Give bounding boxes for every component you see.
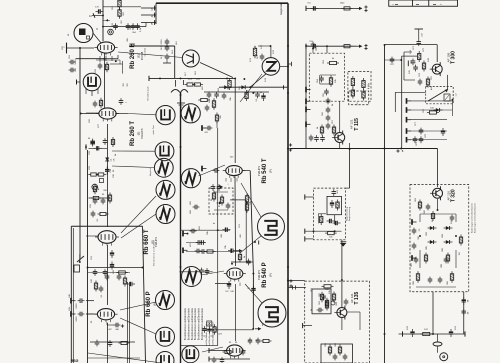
capacitor C5 mid top — [161, 39, 169, 46]
label Rb660T — [144, 229, 158, 254]
leader V1 — [118, 52, 183, 58]
wire tube column c — [107, 245, 109, 305]
wire t320 links — [416, 199, 456, 287]
wire pill540T — [213, 157, 251, 173]
tube Rb540T envelope — [223, 166, 246, 178]
wire x437 into T320 — [437, 149, 439, 188]
svg-text:(E): (E) — [137, 54, 141, 58]
wire bottom mid x253 — [250, 171, 254, 329]
choke br — [433, 334, 442, 353]
label Rb660P — [146, 291, 157, 316]
resistor R12 rd — [212, 191, 230, 210]
resistor R13 rd2 — [245, 193, 252, 213]
svg-text:AF 121: AF 121 — [350, 119, 354, 129]
leader output tube — [202, 347, 223, 352]
cluster E1 below — [95, 62, 109, 73]
tube socket V4b — [156, 180, 175, 199]
box small rsg — [74, 265, 80, 272]
wire lowleft box — [71, 226, 145, 363]
labels b5 — [211, 184, 241, 228]
wire right extra — [385, 59, 402, 61]
wire top right feed y8 — [306, 3, 356, 12]
svg-text:T 300: T 300 — [451, 51, 457, 64]
junction marks bus — [180, 44, 403, 335]
small box note — [207, 321, 212, 326]
wire uhf to bus — [280, 65, 289, 67]
tube Rb260T envelope — [96, 108, 119, 122]
capacitor C31 t300 — [408, 61, 425, 74]
wire E1 pins — [100, 56, 112, 62]
wire bottom mid — [209, 357, 250, 363]
label Rb540P — [257, 262, 273, 287]
label Rb540T — [257, 158, 273, 183]
svg-text:Rb 660 P: Rb 660 P — [146, 291, 152, 316]
wire x463 down — [432, 292, 464, 335]
terminal rows right — [407, 98, 412, 142]
cap C37 right — [390, 57, 395, 66]
terminal t135 — [303, 323, 312, 328]
wire t115 links — [306, 46, 340, 149]
cluster mid y118 — [202, 113, 222, 135]
cluster mid y250 — [238, 252, 246, 263]
tube input pins — [86, 82, 129, 96]
capacitor C27 t115 — [319, 75, 336, 95]
label T135 — [350, 291, 360, 304]
resistor R7 uhf — [253, 46, 256, 59]
diode D2 — [239, 85, 248, 89]
box T300 pot — [426, 87, 458, 104]
wire main top bus — [156, 3, 288, 24]
box top right table — [389, 0, 458, 6]
svg-text:Rb 660 T: Rb 660 T — [144, 229, 150, 254]
terminal 10 mark — [89, 13, 103, 18]
labels left low — [69, 269, 124, 331]
tube socket UKW — [262, 58, 280, 76]
box AGC stage — [314, 188, 346, 240]
capacitor C10 row — [245, 90, 266, 101]
wire right link x368 — [364, 5, 367, 50]
junction t320 — [419, 209, 457, 237]
box ratio detector dashed — [209, 188, 233, 214]
tube socket V2b — [181, 104, 200, 123]
svg-text:AF 121: AF 121 — [350, 293, 354, 303]
junction a — [159, 77, 228, 79]
resistor R18 t115 — [320, 125, 335, 136]
wire bus to T135b — [289, 286, 306, 290]
svg-text:siehe Text: siehe Text — [152, 125, 155, 135]
box 4kHz filter — [348, 71, 371, 101]
arrow feed 2 — [356, 45, 362, 48]
wire x235 above Rb540T — [234, 78, 236, 163]
resistor R4 am row — [185, 79, 204, 86]
leader UKW — [240, 74, 262, 102]
svg-text:Oszillator: Oszillator — [144, 47, 147, 56]
label T320 — [447, 189, 457, 202]
label Rb260T — [130, 121, 144, 146]
labels T300 — [411, 45, 433, 145]
box AGC inner — [327, 196, 342, 214]
speaker symbol — [74, 24, 101, 44]
svg-text:Rb 540 T: Rb 540 T — [262, 158, 268, 183]
wire IF box top edge — [129, 46, 175, 78]
transistor T320 — [430, 186, 443, 200]
labels topleft2 — [107, 18, 136, 47]
tube Rb660P envelope — [94, 309, 117, 323]
capacitor AGC top — [332, 189, 340, 196]
cluster under E3 — [87, 250, 144, 276]
wire t135 inner — [341, 280, 343, 307]
junction t115 — [349, 143, 351, 150]
capacitor C26 t115 — [305, 42, 315, 54]
capacitor C19 y267 — [181, 228, 243, 275]
capacitor C35 br — [407, 325, 415, 337]
svg-text:T 320: T 320 — [451, 189, 457, 202]
box small right — [349, 91, 369, 105]
wire tube column a — [76, 53, 128, 108]
tube socket V1 triode — [182, 50, 199, 67]
cluster mid y237 — [186, 233, 242, 251]
capacitor column t115 — [326, 98, 331, 130]
capacitor C2 top — [103, 23, 146, 31]
capacitor C8 am row — [207, 92, 219, 99]
box T320 stage — [410, 185, 469, 292]
capacitor AGC pair — [327, 219, 341, 225]
resistor R17 t115 — [329, 75, 337, 87]
ground AGC — [340, 240, 346, 266]
wire T115 left rail — [305, 46, 307, 149]
resistor R22 rows — [427, 108, 439, 115]
junction left — [79, 47, 108, 161]
capacitor C25 bm — [202, 324, 253, 335]
terminal br — [399, 331, 466, 336]
wire tube column d — [107, 323, 109, 363]
resistor R16 t115 — [327, 58, 339, 65]
wire central vertical bus — [171, 80, 188, 363]
wire E8 up — [235, 284, 237, 341]
capacitor C2b top — [131, 23, 140, 34]
terminal antenna — [67, 43, 95, 54]
resistor R24 br — [420, 329, 432, 336]
lamp — [440, 353, 448, 361]
svg-text:T 135: T 135 — [354, 291, 360, 304]
labels am row — [202, 85, 258, 102]
wire left supply rail — [79, 48, 81, 258]
svg-text:Bestellnummern und Einzelteile: Bestellnummern und Einzelteile — [191, 307, 194, 340]
tube socket Rb540T detail — [258, 213, 285, 240]
capacitor C18 — [183, 248, 206, 254]
top table ticks — [392, 4, 442, 6]
wire main right bus — [287, 3, 289, 363]
labels uhf — [250, 44, 275, 81]
tube socket V4a — [181, 169, 200, 188]
text block note2 — [205, 321, 214, 346]
tube Rb260H envelope — [94, 42, 117, 56]
box output transformer — [321, 344, 353, 363]
cluster sec3b — [91, 211, 109, 222]
wire mid rows — [181, 128, 253, 346]
wire bottom mid x235 — [215, 177, 236, 294]
tube socket V7a — [182, 346, 199, 363]
junction y267 — [180, 241, 259, 273]
capacitor C7 mid top — [161, 54, 171, 63]
leader detail2 — [245, 284, 262, 303]
transistor T300 — [430, 62, 443, 76]
label T115 — [350, 118, 360, 131]
capacitor C3 left — [69, 59, 77, 65]
wire lb1 — [86, 301, 94, 314]
wire x401 vertical — [402, 56, 417, 148]
wire uhf stub — [258, 45, 271, 47]
wire AGC mid — [318, 214, 334, 225]
svg-text:PHILIPS: PHILIPS — [140, 128, 144, 138]
svg-text:Regelspannung: Regelspannung — [349, 207, 351, 221]
terminal AGC 1 — [305, 194, 314, 199]
tube socket V3b — [154, 158, 173, 177]
capacitor C14 sec2 — [88, 138, 107, 151]
capacitor C24 E4 — [127, 282, 135, 286]
tube socket V6b — [156, 327, 175, 346]
labels T135 — [311, 287, 338, 346]
cluster under input tube — [93, 98, 103, 109]
terminal t115 rows — [306, 87, 311, 127]
transistor T135 — [334, 306, 347, 320]
resistor R19 t135 — [322, 285, 334, 291]
wire t300 — [404, 52, 415, 80]
leader Rb540P — [201, 271, 224, 275]
capacitor C20 y231 — [190, 229, 197, 234]
capacitor C22 lb — [71, 311, 84, 321]
node terminal 3 — [141, 6, 156, 12]
wire y60 left — [96, 60, 120, 64]
text left margin notes — [144, 47, 156, 176]
wire AM bus y79 — [149, 76, 236, 81]
labels topleft — [96, 5, 142, 32]
diode ring — [428, 226, 453, 244]
resistor R14 ab E4 — [94, 281, 103, 293]
svg-text:Gegentakt: Gegentakt — [279, 3, 283, 15]
wire diode row y86 — [219, 78, 287, 94]
svg-text:4 kHz: 4 kHz — [369, 82, 371, 89]
trimmer small circle — [108, 29, 114, 35]
leader detail1 — [241, 183, 261, 217]
junction right — [384, 99, 454, 150]
leader Rb540T — [199, 165, 226, 176]
wire into AGC — [345, 149, 349, 189]
wire top right feed y46 — [306, 41, 356, 53]
capacitor C9 — [222, 93, 227, 100]
capacitor C33 rows — [413, 108, 443, 143]
capacitor C4 left — [69, 67, 77, 72]
arrow feed 1 — [356, 7, 362, 10]
capacitor C28 t135 — [321, 292, 335, 311]
capacitor C36 br — [449, 325, 457, 337]
label right edge col — [471, 202, 477, 233]
label gegentakt — [279, 3, 283, 15]
resistor pair sec2 — [88, 173, 107, 192]
wire right rows — [411, 101, 453, 140]
resistor AGC bottom — [325, 232, 337, 239]
capacitor C34 t320 — [414, 235, 463, 264]
filter parts 4khz — [351, 76, 370, 105]
wire left stubs — [86, 113, 99, 314]
svg-text:Mit Gleichricht. und Endstufe: Mit Gleichricht. und Endstufe — [153, 239, 156, 265]
capacitor C1 top — [95, 7, 103, 14]
svg-text:Rb 540 P: Rb 540 P — [262, 262, 268, 287]
resistor R11 — [205, 185, 224, 253]
tube socket input — [83, 73, 101, 91]
labels T115 — [316, 46, 334, 129]
svg-text:(P): (P) — [269, 169, 273, 173]
arrow out3 — [252, 323, 263, 331]
wire uhf link — [250, 46, 291, 87]
resistor bottom t320 — [416, 271, 453, 283]
capacitor C29 t135 — [317, 299, 349, 313]
plus marks mid — [288, 143, 292, 151]
capacitor C21 lb — [71, 298, 84, 309]
labels T320 — [411, 197, 449, 284]
wire mid horizontal y148 — [290, 148, 438, 150]
cluster sec3 caps — [90, 193, 112, 208]
svg-text:Bestellnummern und Einzelteile: Bestellnummern und Einzelteile — [184, 307, 187, 340]
wire E4 bottom — [88, 340, 140, 358]
leader V3 — [121, 196, 156, 238]
capacitor C32 rows — [419, 128, 446, 136]
cluster pins E7 — [229, 283, 240, 287]
capacitor C30 t300 — [415, 29, 424, 46]
labels left col — [62, 45, 117, 177]
resistor R5 — [205, 98, 216, 111]
cluster bottom mid caps — [248, 338, 272, 345]
text block notes — [184, 307, 204, 340]
cluster under E2 — [90, 137, 114, 147]
svg-text:Bestellnummern und Einzelteile: Bestellnummern und Einzelteile — [187, 307, 190, 340]
svg-text:AF 106: AF 106 — [447, 52, 451, 62]
capacitor C15 sec2 — [105, 167, 115, 175]
wire sec2 — [89, 194, 111, 200]
wire t135 in — [341, 266, 343, 281]
svg-text:Bestellnummern und Einzelteile: Bestellnummern und Einzelteile — [198, 307, 201, 340]
svg-text:PCC88: PCC88 — [140, 51, 144, 60]
svg-text:Bereichsumsch.: Bereichsumsch. — [147, 85, 150, 100]
leader V2 — [112, 114, 207, 172]
svg-text:AF 116: AF 116 — [447, 191, 451, 201]
label antenna marks — [63, 33, 70, 49]
svg-text:Bestellnummern und Einzelteile: Bestellnummern und Einzelteile — [194, 307, 197, 340]
plus marks low — [289, 279, 292, 287]
junction row95 — [243, 78, 254, 94]
wire bottom right row — [403, 331, 466, 336]
wire x452 — [452, 100, 454, 116]
resistor R20 t300 — [410, 49, 421, 65]
wire right main rail x384 — [384, 45, 386, 363]
labels top mid — [172, 40, 197, 75]
label T300 — [447, 51, 457, 64]
box T135 inner — [312, 289, 331, 314]
leader V4 — [120, 302, 156, 334]
label B marks — [396, 149, 403, 153]
transistor T115 — [332, 131, 345, 145]
tube socket V7b — [156, 352, 174, 363]
svg-text:(P): (P) — [153, 302, 157, 306]
terminal t320 — [412, 219, 417, 261]
tube socket V3a — [155, 142, 174, 161]
switch S1 — [77, 254, 84, 263]
box T115 stage — [309, 53, 344, 101]
capacitor C17 — [183, 231, 206, 245]
svg-text:5000: 5000 — [76, 303, 78, 309]
label RSG — [71, 359, 79, 363]
svg-text:2500: 2500 — [161, 39, 163, 45]
wire tube column b — [80, 113, 108, 227]
diode D3 sec2 — [105, 158, 115, 162]
terminal AGC 2 — [305, 229, 342, 234]
labels T320 extra — [419, 211, 461, 256]
resistor R1 top — [118, 0, 121, 19]
leader V1b — [200, 63, 233, 78]
box small dashed right — [444, 91, 453, 104]
terminal row207 — [193, 205, 200, 210]
resistor R15 bm — [223, 349, 246, 356]
terminal AGC 3 — [305, 236, 314, 241]
svg-text:(P): (P) — [269, 273, 273, 277]
label Rb260H — [130, 43, 144, 69]
resistor R23 t320 — [418, 200, 430, 211]
tube socket V5b — [182, 267, 202, 287]
resistor R6 mid — [198, 98, 210, 101]
labels mid col — [190, 200, 227, 248]
svg-text:5000: 5000 — [76, 316, 78, 322]
wire gnd symbols — [177, 103, 185, 107]
svg-text:RSG: RSG — [71, 359, 79, 363]
label regelspannung — [347, 207, 352, 221]
wire left rail 2 — [87, 150, 89, 363]
svg-text:T 115: T 115 — [354, 118, 360, 131]
svg-text:PHILIPS: PHILIPS — [257, 166, 261, 176]
wire T300 top feed — [385, 45, 448, 112]
wire input tube — [77, 80, 81, 85]
diag C14 — [240, 236, 261, 253]
svg-text:Anderungen vorbehalten Bauteil: Anderungen vorbehalten Bauteile — [473, 202, 476, 233]
svg-text:(E): (E) — [137, 132, 141, 136]
wire bus to t135 — [287, 280, 305, 282]
svg-text:Anderungen vorbehalten Bauteil: Anderungen vorbehalten Bauteile — [471, 202, 474, 233]
resistor R21 t300 — [418, 77, 430, 88]
node terminal 4 — [141, 13, 156, 19]
cluster t135 bottom — [328, 301, 347, 360]
capacitor C38 x463 — [461, 297, 469, 315]
capacitor C11 uhf — [257, 54, 264, 61]
tube socket Rb540P detail — [258, 299, 286, 327]
cluster pins E5 — [226, 178, 237, 186]
terminal sec2 — [85, 144, 87, 149]
svg-text:Abgleich: Abgleich — [149, 167, 152, 176]
wire row 93 mid — [204, 85, 284, 92]
wire tube column top — [102, 0, 141, 41]
box T135 stage — [305, 281, 370, 363]
capacitor C39 t320 — [412, 228, 450, 264]
tube socket V5a — [156, 205, 175, 224]
wire t135 links — [342, 312, 360, 330]
tube Rb540P envelope — [224, 268, 246, 282]
svg-text:PHILIPS: PHILIPS — [257, 270, 261, 280]
tube Rb660T envelope — [95, 231, 119, 246]
capacitor C6 mid top — [161, 45, 169, 52]
svg-text:1M: 1M — [98, 187, 100, 190]
leader diag low left — [88, 353, 162, 363]
diode D1 — [222, 85, 231, 89]
capacitor C40 on x253 — [247, 286, 255, 294]
svg-text:1W: 1W — [459, 252, 461, 255]
